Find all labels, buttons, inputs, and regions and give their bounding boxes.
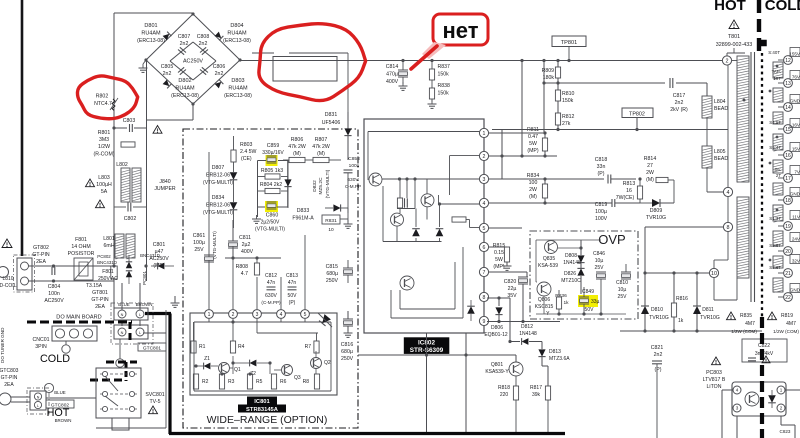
svg-text:(ERC13-08): (ERC13-08) <box>137 38 165 44</box>
svg-text:7W(CE): 7W(CE) <box>616 195 635 201</box>
svg-text:16: 16 <box>785 153 791 159</box>
svg-text:D804: D804 <box>230 23 243 29</box>
bridge rectifier outline <box>144 12 241 105</box>
capacitor C859 highlighted <box>262 143 284 166</box>
capacitor C861 <box>193 231 217 270</box>
svg-text:D832: D832 <box>312 180 318 192</box>
svg-text:S4:5T: S4:5T <box>769 120 781 125</box>
capacitor C860 highlighted <box>252 201 285 233</box>
svg-text:D811: D811 <box>702 307 714 313</box>
svg-text:2: 2 <box>780 406 783 411</box>
svg-text:R817: R817 <box>530 385 542 391</box>
svg-text:11V: 11V <box>792 215 800 220</box>
connector GTC803 <box>0 368 19 388</box>
capacitor C807 <box>178 47 186 54</box>
label GTC801 <box>138 343 166 352</box>
resistor R801 <box>93 130 135 158</box>
svg-text:4M7: 4M7 <box>786 321 796 327</box>
diodes PC802 <box>126 255 132 284</box>
svg-text:C804: C804 <box>48 284 61 290</box>
svg-text:KSA539-Y: KSA539-Y <box>485 369 509 375</box>
enclosure lines <box>46 310 166 428</box>
diode D809 <box>640 199 674 221</box>
svg-text:R802: R802 <box>96 94 109 100</box>
svg-text:(ERC13-08): (ERC13-08) <box>171 93 199 99</box>
svg-text:32899-002-433: 32899-002-433 <box>716 42 753 48</box>
optocoupler PC803 <box>732 382 786 416</box>
label C807 <box>178 34 191 47</box>
IC801 resistor R5 <box>247 374 262 389</box>
resistor R810 <box>555 78 574 104</box>
wire pin2 row <box>489 154 557 157</box>
wire cluster verticals <box>258 161 288 218</box>
diode BNC431D <box>140 253 174 269</box>
svg-text:TVR10G: TVR10G <box>700 315 720 321</box>
diode D802 <box>163 80 172 89</box>
svg-text:BEAD: BEAD <box>714 156 728 162</box>
svg-text:(VTG-MULTI): (VTG-MULTI) <box>325 169 331 198</box>
wire pin5 row <box>489 228 522 297</box>
hot cold boundary top <box>757 0 761 53</box>
svg-text:GT-PIN: GT-PIN <box>1 375 18 381</box>
svg-text:TP801: TP801 <box>561 40 577 46</box>
svg-text:76V: 76V <box>792 75 800 80</box>
capacitor C803 <box>112 118 162 133</box>
svg-text:39k: 39k <box>532 392 541 398</box>
switch SVC801 box <box>96 368 141 418</box>
IC801 resistor R8 <box>303 374 320 389</box>
wire pin1 row <box>489 131 547 134</box>
svg-text:(VTG-MULTI): (VTG-MULTI) <box>203 210 233 216</box>
svg-text:L802: L802 <box>116 162 128 168</box>
svg-text:RU4AM: RU4AM <box>228 86 248 92</box>
svg-text:C821: C821 <box>651 345 664 351</box>
circle stub 1 <box>62 341 70 353</box>
wire relay top <box>252 53 348 112</box>
svg-text:630V: 630V <box>347 177 359 183</box>
label C805 <box>161 64 174 77</box>
svg-text:4: 4 <box>727 190 730 196</box>
svg-text:C803: C803 <box>123 118 136 124</box>
svg-text:D826: D826 <box>564 271 576 277</box>
svg-text:100µ: 100µ <box>595 209 607 215</box>
svg-text:C814: C814 <box>386 64 399 70</box>
svg-text:(M): (M) <box>293 151 301 157</box>
capacitor C811 <box>228 220 254 258</box>
svg-text:100n: 100n <box>349 163 360 169</box>
svg-text:R3: R3 <box>228 379 235 385</box>
svg-text:RU4AM: RU4AM <box>175 86 195 92</box>
svg-text:F961M-A: F961M-A <box>292 216 314 222</box>
svg-text:L801: L801 <box>103 236 115 242</box>
svg-text:D810: D810 <box>651 307 663 313</box>
IC802 transistor Q-a <box>369 173 382 186</box>
svg-text:BROWN: BROWN <box>55 418 72 423</box>
labels secondary right <box>789 48 800 293</box>
svg-text:21: 21 <box>785 271 791 277</box>
svg-text:Z1: Z1 <box>204 356 210 362</box>
wire IC801 pin1 up <box>208 152 210 309</box>
svg-text:R818: R818 <box>498 385 510 391</box>
label DO MAIN BOARD <box>56 315 101 321</box>
diode D831 <box>322 112 352 160</box>
wire mains right vertical <box>147 60 194 281</box>
svg-text:2n2: 2n2 <box>199 41 208 47</box>
svg-text:(P): (P) <box>655 367 662 373</box>
red annotation box net <box>411 14 488 69</box>
IC802 rc pair <box>397 198 466 222</box>
svg-text:(CE): (CE) <box>241 156 252 162</box>
heavy dashed cold path <box>27 322 132 342</box>
svg-text:C-M.PP: C-M.PP <box>345 184 361 189</box>
svg-text:C817: C817 <box>673 93 686 99</box>
svg-text:DO TUNER GND: DO TUNER GND <box>0 327 5 363</box>
svg-text:N: N <box>121 331 124 335</box>
resistor R811 <box>527 127 548 156</box>
svg-text:L804: L804 <box>714 99 726 105</box>
svg-text:1N4148: 1N4148 <box>519 331 537 337</box>
IC802 diode b <box>436 229 444 237</box>
wire pin2 to winding <box>732 60 737 62</box>
svg-text:R831: R831 <box>325 218 337 224</box>
svg-text:(M): (M) <box>529 194 537 200</box>
wire IC801 pin2 up <box>232 246 234 309</box>
resistor R835 <box>727 312 758 334</box>
resistor R819 <box>768 312 800 334</box>
IC802 outer box <box>364 119 484 333</box>
switch tab <box>112 418 129 430</box>
wire pin3 row <box>489 177 604 180</box>
IC801 inner frame <box>194 319 331 391</box>
resistor R809 <box>542 59 561 81</box>
dash-dot boundary WIDE-RANGE <box>183 129 358 428</box>
IC802 inner loops <box>391 247 463 318</box>
svg-text:N: N <box>37 396 40 400</box>
svg-text:C816: C816 <box>341 342 354 348</box>
svg-text:150k: 150k <box>438 72 450 78</box>
label PC802 <box>97 254 117 265</box>
svg-text:1/2W (COM): 1/2W (COM) <box>773 329 799 334</box>
svg-text:R805 1k3: R805 1k3 <box>261 168 283 174</box>
svg-text:C861: C861 <box>193 233 206 239</box>
pin 8 of T801 <box>645 222 733 273</box>
plug circle <box>0 393 30 405</box>
svg-text:D812: D812 <box>521 324 533 330</box>
svg-text:C808: C808 <box>197 34 210 40</box>
transformer secondary windings <box>743 62 784 293</box>
wire pin9 row <box>487 320 560 355</box>
transistor Q801 <box>485 362 523 376</box>
label DO TUNER GND <box>0 327 5 363</box>
IC801 resistor R2 <box>193 374 208 389</box>
svg-text:250V: 250V <box>326 278 339 284</box>
svg-text:3: 3 <box>736 406 739 411</box>
resistor R806 <box>288 137 306 163</box>
svg-text:F801: F801 <box>75 237 87 243</box>
inductor L804 <box>702 96 728 118</box>
svg-text:R806: R806 <box>291 137 304 143</box>
wire pin7 row <box>489 272 527 277</box>
svg-text:3: 3 <box>256 312 259 318</box>
svg-text:47k 2W: 47k 2W <box>288 144 306 150</box>
node R837 <box>430 59 433 62</box>
wire row 258 <box>225 256 281 259</box>
svg-text:L803: L803 <box>98 175 110 181</box>
label T801 <box>716 34 767 48</box>
svg-text:RU4AM: RU4AM <box>227 31 247 37</box>
IC802 diode a <box>412 229 420 237</box>
capacitor C817 <box>544 78 707 113</box>
label D801 <box>137 23 165 44</box>
svg-text:3M3: 3M3 <box>99 137 109 143</box>
svg-text:Q801: Q801 <box>491 362 503 368</box>
svg-text:C860: C860 <box>266 213 279 219</box>
svg-text:MTZ3.6A: MTZ3.6A <box>549 356 570 362</box>
svg-text:6mH: 6mH <box>104 243 115 249</box>
svg-text:R809: R809 <box>542 68 555 74</box>
resistor R836 <box>555 290 569 314</box>
svg-text:47n: 47n <box>267 280 276 286</box>
diode D812 <box>510 324 542 345</box>
capacitor C812 <box>261 258 281 305</box>
svg-text:9: 9 <box>483 319 486 325</box>
svg-text:D806: D806 <box>491 325 503 331</box>
svg-text:LTV817 B: LTV817 B <box>703 377 726 383</box>
svg-text:27k: 27k <box>562 121 571 127</box>
svg-text:5W: 5W <box>529 141 537 147</box>
svg-text:5: 5 <box>483 226 486 232</box>
svg-text:STR83145A: STR83145A <box>246 407 279 413</box>
svg-text:14 OHM: 14 OHM <box>71 244 90 250</box>
svg-text:PC802: PC802 <box>97 254 111 259</box>
wires opto bottom <box>722 390 800 438</box>
label HOT <box>47 407 70 419</box>
IC801 zener Z1 <box>204 356 211 369</box>
svg-text:C802: C802 <box>124 216 137 222</box>
svg-text:Q2: Q2 <box>324 360 331 366</box>
labels secondary left <box>768 50 781 270</box>
svg-text:T3.15A: T3.15A <box>86 283 103 289</box>
svg-text:R803: R803 <box>240 142 253 148</box>
diode D803 <box>215 80 224 89</box>
svg-text:R834: R834 <box>527 173 540 179</box>
wire R806 row <box>283 159 341 161</box>
svg-text:MTZ10C: MTZ10C <box>561 278 581 284</box>
svg-text:R804 2k2: R804 2k2 <box>260 182 282 188</box>
svg-text:2: 2 <box>483 154 486 160</box>
warning triangle AC in <box>2 239 12 248</box>
svg-text:R814: R814 <box>644 156 657 162</box>
label HOT <box>714 0 746 14</box>
svg-text:MZ5.2C: MZ5.2C <box>318 177 324 195</box>
label F801 fuse <box>86 269 118 289</box>
hot cold boundary bottom <box>760 317 764 438</box>
transformer secondary pins <box>784 56 793 302</box>
svg-text:F801: F801 <box>102 269 114 275</box>
label D803 <box>224 78 252 99</box>
svg-text:L805: L805 <box>714 149 726 155</box>
svg-text:6: 6 <box>483 245 486 251</box>
diode D806 <box>484 298 511 343</box>
label WIDE-RANGE <box>207 414 328 426</box>
svg-text:R835: R835 <box>740 313 752 319</box>
svg-text:Q3: Q3 <box>294 375 301 381</box>
svg-text:33µ: 33µ <box>591 299 600 305</box>
svg-text:ERB12-06: ERB12-06 <box>206 173 230 179</box>
svg-text:D-COIL: D-COIL <box>0 283 17 289</box>
svg-text:250V: 250V <box>341 356 354 362</box>
svg-text:2µ2: 2µ2 <box>242 242 251 248</box>
resistor R831 <box>322 208 353 233</box>
svg-text:1k: 1k <box>563 300 569 306</box>
choke L801 <box>103 234 135 259</box>
svg-text:220: 220 <box>500 392 509 398</box>
svg-text:TAP:: TAP: <box>772 69 781 74</box>
svg-text:100: 100 <box>529 180 538 186</box>
capacitor C806 <box>200 67 208 74</box>
page border line <box>21 0 24 256</box>
wire long line 129.5 <box>492 128 728 179</box>
svg-text:GT802: GT802 <box>33 245 49 251</box>
svg-text:R801: R801 <box>98 130 111 136</box>
svg-text:R4: R4 <box>238 344 245 350</box>
svg-text:PC801: PC801 <box>142 271 147 285</box>
IC802 transistor Q-b <box>391 213 404 226</box>
wire main HV rail <box>240 60 727 62</box>
relay box <box>273 57 337 82</box>
svg-text:D809: D809 <box>650 208 663 214</box>
capacitor C846 <box>593 240 606 314</box>
wire IC801 pin5 up <box>304 235 306 309</box>
svg-text:R838: R838 <box>438 83 451 89</box>
svg-text:COLD: COLD <box>765 0 800 14</box>
testpoint TP802 <box>622 108 653 130</box>
wire pin8 row <box>487 296 510 299</box>
IC801 pins 1-5 <box>205 310 310 319</box>
capacitor C801 <box>149 242 169 269</box>
svg-text:(C-M.PP): (C-M.PP) <box>261 300 281 305</box>
svg-text:C806: C806 <box>213 64 226 70</box>
resistor R803 <box>231 136 257 162</box>
svg-text:BLUE: BLUE <box>54 390 66 395</box>
label OVP <box>598 232 625 247</box>
ground bottom left <box>171 296 180 307</box>
svg-text:2n2: 2n2 <box>180 41 189 47</box>
svg-text:8: 8 <box>727 225 730 231</box>
capacitor C808 <box>200 47 208 54</box>
IC801 zener Z2 <box>250 360 257 377</box>
svg-text:22: 22 <box>785 295 791 301</box>
diode D801 <box>163 32 172 41</box>
svg-text:S5:4T: S5:4T <box>769 145 781 150</box>
svg-text:(R-COM): (R-COM) <box>93 152 114 158</box>
svg-text:SVC801: SVC801 <box>145 392 164 398</box>
svg-text:L: L <box>37 404 39 408</box>
heavy dashed hot path <box>90 362 137 381</box>
wire connector rows <box>29 264 148 282</box>
svg-text:RU4AM: RU4AM <box>141 31 161 37</box>
svg-text:(P): (P) <box>289 300 296 306</box>
transformer primary winding upper <box>737 56 749 182</box>
jumper J840 <box>154 179 176 192</box>
IC802 transistor Q-d <box>400 276 414 290</box>
wire pin10 row <box>643 271 709 274</box>
capacitor C804 <box>44 266 64 304</box>
svg-text:D808: D808 <box>565 253 577 259</box>
svg-text:NTC4.7: NTC4.7 <box>94 101 112 107</box>
diode D834 <box>203 180 237 228</box>
IC802 label plate <box>404 337 450 354</box>
svg-text:(M): (M) <box>317 151 325 157</box>
svg-text:25V: 25V <box>194 247 204 253</box>
resistor R804 <box>260 182 282 194</box>
svg-text:D813: D813 <box>549 349 561 355</box>
svg-text:GTC803: GTC803 <box>0 368 19 374</box>
svg-text:5W: 5W <box>495 257 503 263</box>
wire row 355 <box>358 353 516 362</box>
svg-text:100n: 100n <box>48 291 60 297</box>
wire T801 stub <box>727 48 745 56</box>
diode D811 <box>693 273 720 331</box>
svg-text:WIDE–RANGE (OPTION): WIDE–RANGE (OPTION) <box>207 414 328 426</box>
svg-text:KSA-539: KSA-539 <box>538 263 558 269</box>
svg-text:R6: R6 <box>280 379 287 385</box>
svg-text:5A: 5A <box>101 189 108 195</box>
resistor R812 <box>555 101 574 130</box>
svg-text:10: 10 <box>711 271 717 277</box>
svg-text:2.4 5W: 2.4 5W <box>240 149 257 155</box>
svg-text:7V: 7V <box>794 170 800 175</box>
svg-text:4: 4 <box>736 388 739 393</box>
IC801 transistor Q1 <box>219 363 241 374</box>
IC802 pins 1-9 <box>479 128 488 325</box>
svg-text:AC250V: AC250V <box>183 59 203 65</box>
svg-text:18: 18 <box>785 198 791 204</box>
svg-text:4: 4 <box>280 312 283 318</box>
svg-text:BEAD: BEAD <box>714 106 728 112</box>
posistor F801 <box>68 237 95 280</box>
red annotation circle around R802 <box>77 76 137 119</box>
svg-text:S:40T: S:40T <box>768 50 780 55</box>
svg-text:7: 7 <box>483 270 486 276</box>
svg-text:GT-PIN: GT-PIN <box>32 252 50 258</box>
svg-text:J840: J840 <box>159 179 170 185</box>
pin 2 of T801 <box>722 56 731 65</box>
svg-text:C823: C823 <box>780 429 791 434</box>
wire IC801 pin3 up <box>256 277 258 309</box>
svg-text:R1: R1 <box>199 344 206 350</box>
svg-text:3n3/4kV: 3n3/4kV <box>755 351 774 357</box>
IC801 resistor R1 <box>191 322 206 353</box>
svg-text:S1:3T: S1:3T <box>769 216 781 221</box>
svg-text:2kV (R): 2kV (R) <box>670 107 688 113</box>
resistor R814 <box>644 156 674 203</box>
svg-text:C807: C807 <box>178 34 191 40</box>
connector CNC01 <box>32 326 97 350</box>
svg-text:2T: 2T <box>776 173 781 178</box>
inductor L803 <box>86 175 112 208</box>
ground at bridge left <box>139 60 148 72</box>
svg-text:17: 17 <box>785 176 791 182</box>
wire mains left vertical <box>111 13 193 308</box>
svg-text:25V: 25V <box>595 265 605 271</box>
svg-text:L: L <box>139 313 141 317</box>
warning triangle T801 <box>729 20 739 29</box>
resistor R818 <box>498 376 519 433</box>
svg-text:1k: 1k <box>678 318 684 324</box>
svg-text:47k 2W: 47k 2W <box>312 144 330 150</box>
IC801 outer box <box>190 313 337 395</box>
